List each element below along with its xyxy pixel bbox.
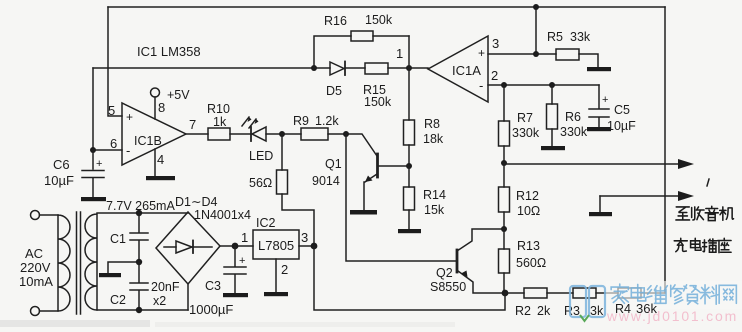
svg-text:R2: R2 (515, 304, 531, 318)
svg-text:3: 3 (492, 36, 499, 51)
wire output line 2 (600, 195, 680, 197)
wire R3 to R4 (596, 292, 618, 294)
svg-text:15k: 15k (424, 203, 445, 217)
svg-text:R8: R8 (424, 117, 440, 131)
smudge bottom mid (155, 322, 455, 327)
label to radio top (676, 206, 734, 220)
capacitor C2 (130, 262, 148, 310)
svg-text:R9: R9 (293, 114, 309, 128)
wire R10 to LED (230, 133, 251, 135)
diode D5 (330, 62, 345, 76)
wire LED to node (266, 133, 282, 135)
resistor R13 (499, 229, 510, 293)
node pin6 junction (90, 147, 96, 153)
wire R5 to ground (579, 54, 598, 67)
wire bottom left rail (97, 309, 188, 311)
svg-text:150k: 150k (365, 13, 393, 27)
svg-text:-: - (479, 78, 483, 93)
svg-text:R16: R16 (324, 14, 347, 28)
diode LED (242, 117, 266, 141)
svg-text:R12: R12 (516, 189, 539, 203)
svg-text:AC: AC (25, 246, 43, 261)
svg-text:20nF: 20nF (151, 280, 180, 294)
svg-text:C6: C6 (53, 157, 70, 172)
wire 56ohm branch top (281, 134, 283, 170)
svg-text:LED: LED (249, 149, 273, 163)
resistor R9 (301, 128, 328, 140)
wire left drop to pin6 (92, 68, 94, 150)
resistor R4 (618, 288, 641, 298)
wire IC1B pin5 feedback drop (108, 7, 122, 116)
wire 56ohm branch bottom (282, 194, 314, 246)
svg-text:1: 1 (396, 46, 403, 61)
svg-text:+: + (239, 255, 245, 267)
resistor R5 (556, 49, 579, 60)
capacitor C1 (130, 213, 148, 262)
resistor R7 (499, 85, 510, 163)
wire D5 to R15 (345, 67, 365, 69)
svg-text:R5: R5 (547, 30, 563, 44)
node 1 (406, 65, 412, 71)
ground C5 (587, 127, 611, 131)
resistor R15 (365, 63, 388, 74)
svg-text:IC2: IC2 (256, 216, 276, 230)
svg-text:330k: 330k (512, 126, 540, 140)
svg-text:Q1: Q1 (325, 157, 342, 171)
svg-text:3: 3 (301, 230, 308, 245)
wire Q2 base run (346, 134, 456, 261)
ground IC1B pin4 (146, 176, 175, 180)
svg-text:IC1B: IC1B (134, 134, 162, 148)
terminal AC bottom (31, 307, 40, 316)
wire D5 anode (314, 67, 330, 69)
wire IC1A pin3 (488, 53, 536, 55)
ground R6 (541, 146, 565, 150)
svg-text:R13: R13 (517, 239, 540, 253)
svg-text:C2: C2 (110, 293, 126, 307)
svg-text:+: + (478, 46, 485, 60)
node LED junction (279, 131, 285, 137)
watermark wash band (606, 281, 742, 309)
svg-text:1N4001x4: 1N4001x4 (194, 208, 251, 222)
capacitor C6 (82, 150, 104, 197)
svg-text:+5V: +5V (167, 88, 190, 102)
svg-text:R14: R14 (423, 188, 446, 202)
wire 5V rail to R13 bottom (314, 246, 505, 310)
label to radio bottom (674, 238, 731, 252)
resistor R14 (404, 166, 415, 229)
ground IC2 (264, 292, 288, 296)
transistor Q1 (346, 134, 409, 210)
node R7 bottom junction (501, 160, 507, 166)
node C1 top junction (136, 210, 142, 216)
arrowhead output 2 (678, 191, 694, 201)
wire bridge bottom stem (187, 284, 189, 310)
arrowhead output 1 (678, 159, 694, 169)
ground C3 (223, 293, 248, 297)
regulator IC2 L7805 (253, 230, 299, 259)
resistor 56ohm (277, 170, 288, 194)
svg-text:6: 6 (110, 136, 117, 151)
resistor R12 (499, 163, 510, 229)
ground output 2 (589, 212, 612, 216)
resistor R2 (524, 288, 547, 298)
resistor R16 (351, 31, 373, 41)
node R12 bottom junction (501, 226, 507, 232)
wire top rail (108, 6, 665, 8)
transformer T1 secondary (85, 214, 97, 310)
wire AC top lead (40, 214, 59, 216)
node R6 top junction (549, 82, 555, 88)
wire mid ground (108, 262, 139, 273)
wire bridge to C3 node (220, 245, 253, 247)
svg-text:1: 1 (241, 230, 248, 245)
svg-text:33k: 33k (570, 30, 591, 44)
svg-text:560Ω: 560Ω (516, 256, 546, 270)
svg-text:56Ω: 56Ω (249, 176, 272, 190)
ground Q1 emitter (350, 210, 377, 215)
svg-text:8: 8 (158, 100, 165, 115)
wire IC2 pin2 stem (275, 259, 277, 292)
node R13 bottom junction (502, 290, 509, 297)
svg-text:+: + (96, 158, 102, 170)
node R9 right junction (343, 131, 349, 137)
tick mark (707, 179, 709, 186)
svg-text:18k: 18k (423, 132, 444, 146)
ground R5 (587, 67, 611, 71)
svg-text:S8550: S8550 (430, 280, 466, 294)
bridge rectifier D1-D4 (156, 212, 220, 284)
svg-text:5: 5 (108, 103, 115, 118)
svg-text:IC1A: IC1A (452, 63, 481, 78)
wire node1 to IC1A output (409, 67, 428, 69)
svg-text:10µF: 10µF (44, 173, 74, 188)
wire IC1B pin6 (93, 149, 122, 151)
wire pin8 stem (154, 97, 156, 119)
svg-text:2: 2 (281, 262, 288, 277)
svg-text:4: 4 (157, 152, 164, 167)
svg-text:1k: 1k (213, 115, 227, 129)
watermark text (611, 284, 736, 304)
node pin3 junction (533, 51, 539, 57)
wire R4 to rail (641, 292, 665, 294)
svg-text:1000µF: 1000µF (189, 302, 233, 317)
transistor Q2 (457, 229, 505, 293)
node C3 junction (232, 243, 239, 250)
node C2 bottom junction (136, 307, 142, 313)
terminal AC top (31, 211, 40, 220)
svg-text:x2: x2 (153, 294, 166, 308)
wire inverting input bus y68 (93, 67, 314, 69)
wire AC bottom lead (40, 310, 59, 312)
svg-text:www.jd0101.com: www.jd0101.com (606, 308, 738, 324)
wire output2 ground stem (599, 196, 601, 212)
wire IC1B output pin7 (186, 133, 208, 135)
resistor R3 (573, 288, 596, 298)
wire R9 right (328, 133, 346, 135)
wire IC2 pin3 (299, 245, 314, 247)
wire IC1A pin2 bus (488, 84, 599, 86)
svg-text:7: 7 (189, 117, 196, 132)
resistor R10 (208, 128, 230, 140)
svg-text:-: - (126, 143, 130, 158)
svg-text:150k: 150k (364, 95, 392, 109)
node C1 C2 junction (136, 259, 142, 265)
terminal +5V circle (151, 88, 160, 97)
smudge bottom left (0, 320, 150, 327)
wire R9 left (282, 133, 301, 135)
capacitor C5 (589, 85, 609, 127)
svg-text:D5: D5 (326, 84, 342, 98)
wire node1 column (408, 36, 410, 120)
transformer T1 primary (58, 215, 70, 311)
svg-text:+: + (602, 94, 608, 106)
svg-text:D1∼D4: D1∼D4 (175, 195, 217, 209)
node R7 top junction (501, 82, 507, 88)
svg-text:10µF: 10µF (607, 119, 636, 133)
svg-text:Q2: Q2 (436, 266, 453, 280)
wire R16 branch (314, 36, 409, 68)
wire R2 left (505, 292, 524, 294)
wire right rail (664, 7, 666, 293)
node D5 branch left junction (311, 65, 317, 71)
resistor R8 (404, 120, 415, 166)
svg-text:C5: C5 (614, 103, 630, 117)
resistor R6 (547, 85, 558, 146)
ground R14 (398, 229, 421, 233)
svg-text:C3: C3 (205, 279, 221, 293)
node Q1 base junction (406, 163, 412, 169)
ground C6 (81, 197, 106, 201)
svg-text:10mA: 10mA (19, 274, 53, 289)
svg-text:R6: R6 (565, 110, 581, 124)
wire pin4 stem (154, 149, 156, 176)
svg-text:+: + (126, 110, 133, 124)
green proof mark (580, 315, 589, 321)
ground C1 C2 (99, 273, 121, 277)
svg-text:220V: 220V (20, 260, 51, 275)
svg-text:L7805: L7805 (258, 238, 294, 253)
op-amp IC1A (428, 36, 488, 102)
node rail junction (533, 4, 539, 10)
svg-text:9014: 9014 (312, 174, 340, 188)
node IC2 output junction (311, 243, 318, 250)
wire R2 to R3 (547, 292, 573, 294)
wire secondary top (97, 212, 188, 214)
op-amp IC1B (122, 103, 186, 165)
svg-text:R7: R7 (517, 111, 533, 125)
svg-text:330k: 330k (560, 125, 588, 139)
capacitor C3 (224, 246, 246, 293)
transformer core (77, 212, 81, 314)
svg-text:2: 2 (491, 68, 498, 83)
wire output line 1 (504, 163, 680, 165)
svg-text:IC1 LM358: IC1 LM358 (137, 44, 201, 59)
watermark logo boxes (570, 286, 605, 317)
svg-text:1.2k: 1.2k (315, 114, 339, 128)
svg-text:R10: R10 (207, 102, 230, 116)
wire R15 to node1 (388, 67, 409, 69)
svg-text:2k: 2k (537, 304, 551, 318)
wire R5 left lead (536, 53, 556, 55)
svg-text:C1: C1 (110, 232, 126, 246)
svg-text:10Ω: 10Ω (517, 204, 540, 218)
wire pin3 drop from rail (535, 7, 537, 54)
